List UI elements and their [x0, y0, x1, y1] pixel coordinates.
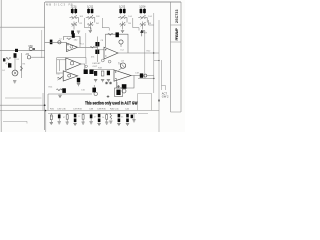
- svg-text:D1: D1: [17, 59, 21, 61]
- ground G6: [77, 84, 80, 86]
- connector ring: [58, 41, 61, 44]
- svg-text:C42: C42: [125, 108, 130, 110]
- frame top border: [45, 1, 181, 3]
- svg-text:IC1: IC1: [81, 44, 85, 46]
- diode D5: [122, 84, 127, 89]
- wire node to bus: [31, 56, 45, 58]
- capacitor C20: [58, 114, 61, 118]
- transformer T2: [87, 8, 93, 14]
- svg-text:10k: 10k: [50, 116, 53, 118]
- junction: [153, 78, 154, 79]
- transistor Q3: [120, 63, 125, 68]
- op-amp U1: [67, 43, 78, 52]
- wire U5 out: [131, 75, 140, 77]
- svg-text:IC2: IC2: [121, 50, 125, 52]
- wire T4 down: [138, 18, 147, 30]
- resistor R5: [57, 89, 63, 91]
- svg-text:47: 47: [63, 117, 66, 119]
- svg-text:1k: 1k: [102, 117, 104, 119]
- capacitor C21 stack: [74, 114, 77, 118]
- svg-text:GW 2: GW 2: [162, 95, 169, 99]
- connector ring: [144, 74, 147, 77]
- svg-text:OUT: OUT: [93, 66, 98, 68]
- svg-text:R2: R2: [80, 23, 84, 25]
- transformer T4: [140, 8, 146, 14]
- wire input rail upper-left: [0, 49, 45, 51]
- ground G5: [13, 81, 16, 83]
- capacitor C4: [95, 42, 99, 46]
- diode D2: [14, 53, 17, 58]
- wire cap bus: [97, 37, 99, 63]
- wire: [15, 53, 22, 78]
- connector J1: [29, 47, 32, 50]
- resistor R4: [58, 77, 63, 79]
- svg-text:2SC733: 2SC733: [175, 10, 179, 24]
- resistor R7: [101, 71, 104, 76]
- svg-text:R31: R31: [50, 108, 55, 110]
- capacitor C11: [107, 71, 110, 76]
- svg-text:R8: R8: [148, 23, 152, 25]
- svg-text:R18: R18: [98, 68, 103, 70]
- resistor R11: [66, 115, 68, 120]
- star mark B: [109, 82, 112, 85]
- svg-text:C39 R35: C39 R35: [97, 108, 106, 110]
- small circles labels: [85, 65, 87, 67]
- svg-text:103: 103: [96, 16, 100, 18]
- diode D1 on rail: [15, 49, 18, 52]
- transistor Q1: [12, 70, 18, 76]
- transformer T1: [71, 8, 77, 14]
- main vertical bus: [44, 2, 46, 130]
- capacitor C3 input: [50, 40, 53, 45]
- capacitor C22: [90, 114, 93, 118]
- wire T2 down: [86, 18, 95, 30]
- capacitor C14: [71, 31, 74, 35]
- svg-text:103: 103: [80, 16, 84, 18]
- power arrow: [140, 30, 143, 36]
- ground G1: [77, 31, 80, 33]
- star mark A: [105, 82, 108, 85]
- vertical bus right B: [153, 13, 155, 93]
- op-amp U2: [66, 58, 81, 70]
- capacitor C1: [3, 58, 5, 61]
- IC label circle: [68, 74, 71, 77]
- svg-text:R6: R6: [128, 23, 132, 25]
- svg-text:1C01: 1C01: [71, 5, 78, 9]
- op-amp U4: [104, 47, 118, 59]
- diode D4: [116, 32, 119, 37]
- junction X: [158, 100, 160, 102]
- wire RC rail: [92, 69, 114, 71]
- trimmer VR6: [120, 22, 126, 26]
- svg-text:This section only used in ACT: This section only used in ACT GW: [85, 101, 138, 106]
- capacitor C26: [131, 115, 133, 119]
- svg-text:R12: R12: [56, 74, 61, 76]
- svg-text:B+: B+: [144, 32, 148, 35]
- ground G4: [141, 31, 144, 33]
- vertical bus right C: [158, 20, 160, 132]
- svg-text:1C02: 1C02: [87, 5, 94, 9]
- wire U1 out: [78, 37, 98, 48]
- ground G2: [89, 31, 92, 33]
- trimmer VR1: [71, 15, 77, 19]
- resistor R8 squiggle: [90, 46, 94, 48]
- wire: [48, 94, 92, 111]
- ground G7: [58, 95, 61, 97]
- connector ring: [94, 92, 97, 95]
- bottom-left wires: [5, 97, 42, 99]
- capacitor C7: [89, 69, 93, 74]
- trimmer VR4: [88, 22, 94, 26]
- frame left border: [0, 27, 2, 121]
- plus mark: [107, 95, 110, 98]
- svg-text:C37 R33: C37 R33: [73, 108, 82, 110]
- IC label circle: [70, 62, 73, 65]
- svg-text:C35 C36: C35 C36: [57, 108, 66, 110]
- wire step B: [133, 18, 139, 31]
- title block strip: [171, 2, 182, 112]
- feedback loop lower: [117, 76, 134, 89]
- secondary vertical bus left: [41, 30, 43, 58]
- capacitor C8: [77, 78, 80, 83]
- trimmer VR7: [140, 15, 146, 19]
- diode D3: [72, 33, 75, 38]
- capacitor C9: [62, 88, 66, 93]
- wire corner: [162, 86, 166, 91]
- scan edge left: [0, 0, 3, 132]
- wire right: [138, 76, 154, 79]
- vertical wire: [42, 93, 44, 111]
- svg-text:R3: R3: [23, 64, 27, 66]
- svg-text:MB 3/1C3: MB 3/1C3: [46, 3, 65, 7]
- svg-text:PREAMP: PREAMP: [175, 27, 179, 40]
- svg-text:1C04: 1C04: [139, 5, 146, 9]
- capacitor C13: [92, 88, 96, 93]
- svg-text:Q3: Q3: [121, 61, 125, 63]
- wire link: [154, 60, 159, 62]
- svg-text:R40 C41: R40 C41: [110, 108, 119, 110]
- resistor R6: [108, 33, 113, 35]
- op-amp U1 feedback loop: [64, 37, 81, 45]
- resistor R13: [106, 115, 108, 120]
- capacitor C23 stack: [98, 114, 101, 118]
- resistor R12: [82, 115, 84, 120]
- svg-text:C8: C8: [101, 40, 105, 42]
- ground G3: [121, 31, 124, 33]
- capacitor C25 stack: [126, 114, 129, 118]
- junction: [153, 52, 154, 53]
- capacitor C5: [95, 50, 99, 54]
- svg-text:47k: 47k: [91, 57, 95, 59]
- svg-text:47: 47: [94, 117, 97, 119]
- wire T3 down: [118, 18, 127, 30]
- trimmer VR2: [71, 22, 77, 26]
- svg-text:C2: C2: [59, 39, 63, 41]
- svg-text:MW: MW: [29, 45, 34, 48]
- trimmer VR5: [120, 15, 126, 19]
- svg-text:R4: R4: [96, 23, 100, 25]
- wire U4 out: [118, 52, 159, 54]
- wire: [45, 41, 67, 43]
- svg-text:C4: C4: [2, 70, 6, 72]
- svg-text:33: 33: [121, 117, 124, 119]
- svg-text:22: 22: [78, 116, 81, 118]
- svg-text:104: 104: [148, 16, 152, 18]
- capacitor C24 stack: [118, 114, 121, 118]
- resistor R3 squiggle: [67, 38, 71, 40]
- svg-text:C18: C18: [135, 73, 140, 75]
- svg-text:1S2: 1S2: [74, 40, 79, 42]
- label circles: [101, 59, 104, 62]
- op-amp U4 feedback: [106, 34, 129, 53]
- capacitor C12 output: [140, 73, 143, 77]
- connector J2: [27, 56, 30, 59]
- wire U2 out: [81, 64, 85, 70]
- resistor R1 squiggle: [6, 58, 11, 60]
- wire: [116, 82, 118, 88]
- op-amp U3: [63, 71, 77, 81]
- svg-text:C38: C38: [89, 108, 94, 110]
- transistor Q2: [119, 40, 123, 44]
- vertical bus right A: [144, 30, 146, 79]
- transistor Q4: [122, 89, 126, 93]
- ground G20: [133, 113, 135, 119]
- svg-text:C16: C16: [81, 90, 86, 92]
- op-amp U2 outline rect: [57, 58, 86, 73]
- svg-text:R14: R14: [49, 87, 54, 89]
- trimmer VR8: [140, 22, 146, 26]
- resistor R14 squiggle: [110, 113, 112, 119]
- frame left step border: [0, 26, 45, 28]
- relay K1 box: [115, 88, 123, 97]
- transformer T3: [119, 8, 125, 14]
- svg-text:R22: R22: [147, 51, 152, 53]
- svg-text:FM DET: FM DET: [93, 63, 102, 65]
- svg-text:104: 104: [128, 16, 132, 18]
- capacitor C2: [8, 63, 11, 67]
- trimmer VR3: [88, 15, 94, 19]
- resistor R2 vertical squiggle: [21, 66, 23, 71]
- svg-text:AM: AM: [26, 53, 30, 56]
- wire T1 down: [70, 18, 79, 30]
- svg-text:Tie: Tie: [118, 63, 122, 66]
- svg-text:1C03: 1C03: [119, 5, 126, 9]
- capacitor C6: [84, 69, 88, 74]
- vertical bus right D: [161, 60, 163, 90]
- wire step A: [102, 18, 109, 31]
- op-amp U5: [114, 70, 131, 81]
- wire to U4 input: [98, 49, 105, 51]
- resistor R10: [50, 115, 52, 120]
- vertical wire mid: [85, 33, 87, 58]
- junction: [45, 110, 47, 112]
- capacitor C10: [94, 71, 97, 76]
- box bottom right: [138, 94, 152, 111]
